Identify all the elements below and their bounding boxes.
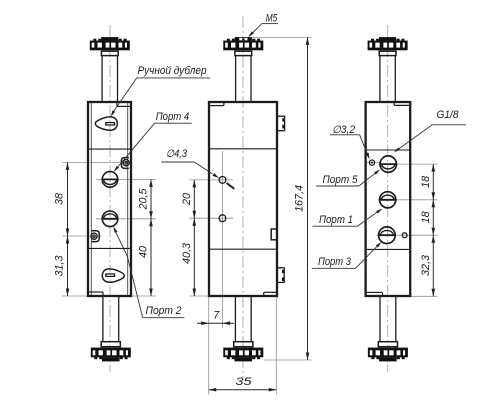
svg-text:20,5: 20,5 (138, 187, 150, 210)
view2 top stem (235, 56, 237, 102)
svg-text:18: 18 (420, 176, 432, 188)
view3 knurled knob bottom (368, 348, 408, 358)
view1 section line upper (88, 148, 131, 150)
view2 bottom-right notch (263, 292, 265, 296)
view2 knurled knob top (227, 39, 230, 41)
extension lines dimension 35 (208, 328, 210, 395)
view2 right connector tab upper (277, 116, 284, 131)
view3 bottom stem (379, 296, 381, 342)
svg-text:38: 38 (54, 193, 66, 205)
extension lines 167,4 (252, 36, 312, 38)
view1 bottom tab (102, 357, 120, 361)
view2 top-left notch (223, 102, 225, 106)
d4,3 leader continuation stroke (227, 183, 235, 189)
view3 top stem (379, 56, 381, 102)
view1 keyhole bottom slot (105, 273, 115, 277)
view1 screw hole upper-right boss (121, 158, 128, 169)
svg-text:167,4: 167,4 (294, 185, 306, 212)
centerline view2 (242, 16, 244, 378)
view3 screw hole upper-left (d3.2) (369, 160, 374, 165)
dimension 38 line (67, 162, 69, 296)
view1 knurled knob bottom (91, 348, 131, 358)
view1 screw hole lower-left (91, 233, 97, 239)
view1 top-right notch (116, 102, 118, 106)
view3 body outline (366, 102, 411, 296)
svg-text:40: 40 (138, 246, 150, 258)
view1 top collar (101, 51, 118, 55)
view1 screw hole upper-right (123, 160, 129, 166)
svg-text:18: 18 (420, 211, 432, 223)
view2 section line lower (209, 248, 277, 250)
view2 pilot hole 1 (d4.3) (219, 177, 226, 184)
svg-text:∅4,3: ∅4,3 (166, 148, 187, 160)
centerline view3 (387, 25, 389, 372)
centerline view1 (109, 25, 111, 372)
view2 bottom stem (234, 296, 236, 342)
dimension 20/40,3 line (193, 180, 195, 296)
view2 section line upper (209, 148, 277, 150)
view2 top collar (235, 51, 252, 55)
view1 body outline (88, 102, 131, 296)
view2 pilot hole 2 (219, 215, 226, 222)
extension lines left column 38/31,3 (62, 161, 131, 163)
view1 keyhole bottom (102, 269, 124, 282)
svg-text:20: 20 (181, 193, 193, 206)
extension lines right column 18/18/32,3 (378, 163, 438, 165)
svg-text:Порт 3: Порт 3 (318, 256, 351, 268)
dimension 167,4 line (307, 37, 309, 360)
view1 inner wall lines (90, 103, 92, 295)
extension line view3 screw hole axis (367, 162, 381, 164)
view2 top tab (235, 37, 252, 41)
extension lines column 20/40,3 and pilot hole axes (222, 151, 224, 328)
svg-text:Ручной дублер: Ручной дублер (138, 65, 207, 77)
view1 section line lower (88, 247, 131, 249)
view3 top tab (379, 37, 396, 41)
extension lines dimension 7 (208, 297, 210, 328)
view2 top tab M5 hole detail (239, 38, 247, 40)
view2 bottom tab (235, 357, 253, 361)
svg-text:32,3: 32,3 (420, 255, 432, 276)
view3 top-right notch (393, 102, 395, 105)
view1 bottom-left notch (102, 292, 104, 296)
svg-text:Порт 2: Порт 2 (146, 305, 182, 317)
dimension 7 line (197, 322, 234, 324)
view3 screw hole lower-right (402, 233, 407, 238)
view1 bottom stem (102, 296, 104, 342)
view3 section line lower (366, 248, 411, 250)
svg-text:7: 7 (213, 310, 220, 322)
view1 top stem (101, 56, 103, 102)
svg-text:31,3: 31,3 (54, 255, 66, 276)
view1 port 2 circle (102, 211, 118, 227)
view3 port 1 circle (380, 192, 396, 208)
view3 port 3 circle (379, 227, 396, 244)
svg-text:M5: M5 (266, 12, 278, 24)
view2 knurled knob bottom (223, 348, 263, 358)
view1 bottom collar (101, 342, 120, 347)
svg-text:Порт 4: Порт 4 (156, 111, 190, 123)
dimension 18/18/32,3 line (432, 164, 434, 296)
view3 knurled knob top (371, 39, 374, 41)
extension lines column 20,5/40 (96, 178, 156, 180)
view1 port 4 circle (102, 172, 118, 188)
svg-text:Порт 1: Порт 1 (319, 214, 353, 226)
view3 bottom-left notch (382, 292, 384, 296)
view2 bottom collar (234, 342, 253, 347)
view3 bottom collar (378, 342, 397, 347)
view1 keyhole top slot (105, 122, 115, 126)
dimension 35 line (209, 389, 277, 391)
view2 right edge small port (271, 229, 277, 240)
view2 body outline (209, 102, 277, 296)
view3 section line upper (366, 149, 411, 151)
svg-text:G1/8: G1/8 (437, 109, 459, 121)
svg-text:Порт 5: Порт 5 (323, 174, 358, 186)
dimension 20,5/40 line (150, 179, 152, 296)
view1 manual override keyhole top (95, 117, 117, 130)
view3 port 5 circle (380, 156, 396, 172)
view1 screw hole lower-left boss (92, 231, 100, 242)
svg-text:40,3: 40,3 (181, 243, 193, 264)
view1 knurled knob top (93, 39, 96, 41)
view3 top collar (379, 51, 396, 55)
view1 top tab (101, 37, 118, 41)
view3 bottom tab (379, 357, 397, 361)
svg-text:35: 35 (236, 376, 253, 388)
view2 right connector tab lower (277, 268, 284, 283)
